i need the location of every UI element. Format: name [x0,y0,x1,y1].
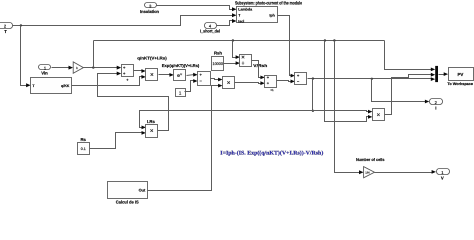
wire I left branch to I.Rs product [140,111,313,128]
wire constant 1 to sum S2 [185,81,195,92]
svg-text:I.Rs: I.Rs [147,119,155,124]
product P1 [146,69,158,81]
svg-text:Out: Out [139,188,146,193]
svg-text:T: T [4,29,7,34]
wire I_short_del to subsystem Iscl input [217,21,233,26]
node junction V [92,66,94,68]
node junction V-Ncells [333,39,335,41]
wire 10000 to divider [224,63,237,65]
node junction V-P2 [324,39,326,41]
node junction I-b [371,78,373,80]
sum S3 [295,73,307,85]
wire P3 to sum S4 [235,83,262,84]
node junction V-Rsh [232,39,234,41]
node I_short_del (input port 4) [200,23,220,34]
product I.Rs [146,125,158,138]
wire S4 to sum S3 [277,81,292,82]
node Vin (input port 1) [39,65,51,76]
wire gain output to junction and sum S1 [84,67,118,69]
block PV To Workspace [447,68,473,87]
node junction I-c [312,110,314,112]
wire T junction down to q/KK block [21,26,27,86]
wire P1 to e^u [159,74,171,76]
wire S2 to product P3 [211,79,220,80]
wire Rs to I.Rs product [90,133,143,149]
constant Rs 0.1 [78,143,90,155]
wire V bus top [94,40,385,42]
sum S2 [198,72,211,86]
wire q/KK output to product P1 [72,77,143,86]
block e^u exponential [174,70,186,81]
wire I line S3 output to mux input 3 [308,78,432,80]
wire G2 to output port V [375,172,433,174]
wire Calcul de IS output to product P3 [148,86,220,191]
constant Rsh 10000 [212,57,224,71]
node junction T [20,24,22,26]
svg-text:Insolation: Insolation [140,9,159,14]
wire V down to divider [233,41,237,58]
wire I.Rs feedback to sum S1 [98,74,169,131]
wire V down to Number-of-cells gain [335,41,361,173]
subsystem U1 photocurrent block [237,7,278,24]
svg-text:Iph: Iph [269,14,274,18]
svg-text:I: I [435,105,436,110]
svg-text:To Workspace: To Workspace [447,82,473,86]
wire V riser [93,41,95,68]
wire divider output to sum S4 [252,61,262,78]
svg-text:Subsystem: photo-current of th: Subsystem: photo-current of the module [235,0,302,5]
wire T to junction and subsystem T input [13,16,233,26]
svg-text:+1: +1 [270,88,274,92]
svg-text:Vin: Vin [41,71,48,76]
wire V to mux input 1 [385,41,432,70]
svg-text:Number of cells: Number of cells [356,157,385,162]
svg-text:Rsh: Rsh [214,51,222,56]
gain G2 number of cells [364,167,375,178]
sum S4 [265,76,277,93]
wire e^u to sum S2 [187,75,195,76]
divider V/Rsh [240,55,252,67]
constant 1 [176,89,186,97]
wire V down to product P2 [325,41,369,122]
svg-text:10000: 10000 [213,61,224,66]
svg-text:V: V [441,176,444,181]
wire Iph output down to sum S3 [278,16,292,76]
svg-text:1/N: 1/N [365,171,369,175]
svg-text:PV: PV [457,72,463,77]
node T (input port 2) [0,23,13,35]
svg-text:Iscl: Iscl [238,19,244,23]
node junction I-a [312,77,314,79]
wire Vin to gain [52,67,70,69]
node Insolation (input port 3) [140,3,159,15]
wire I junction b down to output port I [372,79,427,102]
svg-text:Lambda: Lambda [238,8,253,12]
svg-text:0.1: 0.1 [81,147,86,151]
wire P2 output to mux input 2 [385,75,432,115]
svg-text:Exp(q/nKT)(V+I.Rs): Exp(q/nKT)(V+I.Rs) [162,63,200,68]
block q/KK temperature block [31,78,72,94]
wire I right branch to product P2 [313,111,369,112]
wire Insolation to subsystem Lambda input [157,6,233,10]
node V (output port 1) [437,169,450,181]
product P2 power [373,109,385,121]
wire mux to PV [439,74,445,76]
svg-text:I=Iph-(IS. Exp((q/nKT)(V+I.Rs): I=Iph-(IS. Exp((q/nKT)(V+I.Rs))-V/Rsh) [220,151,323,157]
svg-text:q/KK: q/KK [61,84,70,88]
wire S1 to P1 [134,70,143,72]
wire I down from junction a [312,79,314,111]
product P3 [223,77,235,89]
mux [435,66,438,82]
sum S1 [122,65,134,81]
block Calcul de IS [108,182,148,205]
svg-text:Rs: Rs [80,137,86,142]
node I (output port 2) [430,99,443,111]
svg-text:Calcul de IS: Calcul de IS [116,199,139,204]
svg-text:I_short_del: I_short_del [200,29,220,34]
svg-text:q/nKT(V+I.Rs): q/nKT(V+I.Rs) [137,56,167,61]
gain G1 [73,62,83,73]
svg-text:V/Rsh: V/Rsh [253,63,268,68]
